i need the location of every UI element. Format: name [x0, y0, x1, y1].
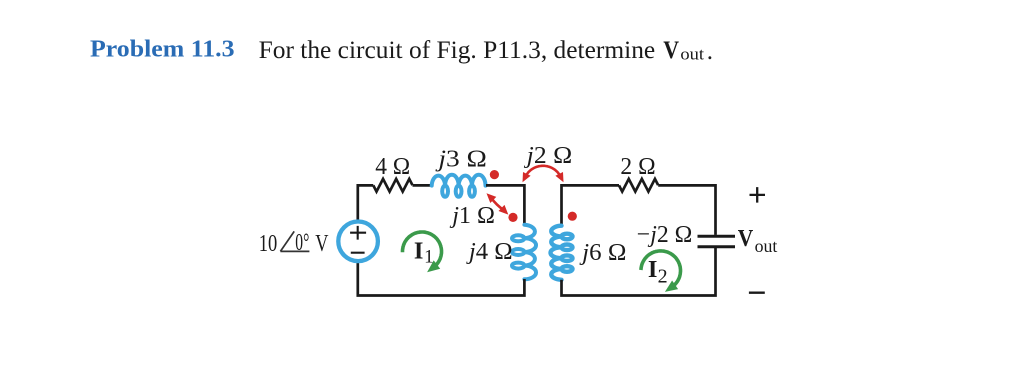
inductor j6 ohm (coil) — [551, 226, 573, 280]
svg-text:For the circuit of Fig. P11.3,: For the circuit of Fig. P11.3, determine — [259, 36, 656, 64]
svg-text:j3 Ω: j3 Ω — [435, 145, 487, 172]
inductor j3 ohm (coil) — [432, 175, 486, 197]
svg-text:2 Ω: 2 Ω — [620, 153, 655, 180]
mutual arrow j1 — [491, 198, 504, 210]
svg-text:j4 Ω: j4 Ω — [466, 238, 513, 265]
svg-text:V: V — [663, 36, 679, 64]
svg-text:1: 1 — [424, 246, 434, 267]
svg-text:j2 Ω: j2 Ω — [524, 142, 573, 169]
resistor 4 ohm — [373, 179, 412, 192]
svg-text:Problem 11.3: Problem 11.3 — [90, 37, 235, 63]
wire: j4 bottom, bottom wire, up to source minus — [358, 262, 525, 295]
wire: 4ohm to j3 coil — [413, 184, 432, 187]
mesh current I2 arrow — [641, 251, 681, 286]
svg-text:I: I — [648, 256, 658, 283]
wire: capacitor to bottom-right corner back to j6 bottom — [562, 247, 716, 296]
capacitor -j2 plates — [698, 236, 736, 247]
svg-text:0°: 0° — [295, 229, 309, 256]
svg-text:I: I — [414, 238, 424, 265]
wire: right loop, j6 top to corner to 2ohm — [562, 185, 620, 225]
inductor j4 ohm (coil) — [512, 225, 536, 280]
plus (Vout polarity) — [750, 187, 766, 203]
svg-text:j1 Ω: j1 Ω — [449, 202, 495, 229]
svg-text:2: 2 — [658, 265, 668, 287]
polarity dot j3 — [490, 170, 499, 179]
mesh current I1 arrow — [403, 232, 442, 266]
svg-text:V: V — [738, 226, 754, 252]
wire: source top to top-left corner to 4ohm resistor — [358, 185, 374, 220]
svg-text:out: out — [680, 44, 704, 63]
svg-text:4 Ω: 4 Ω — [375, 153, 410, 180]
voltage source circle — [338, 222, 378, 262]
wire: 2ohm to top-right corner down to capacitor — [658, 185, 715, 235]
minus (Vout polarity) — [749, 292, 765, 294]
svg-text:.: . — [707, 38, 713, 65]
polarity dot j6 — [568, 212, 577, 221]
plus sign in source — [350, 226, 366, 240]
svg-text:j6 Ω: j6 Ω — [579, 239, 626, 266]
resistor 2 ohm — [619, 179, 658, 192]
angle symbol — [280, 231, 309, 251]
svg-text:−j2 Ω: −j2 Ω — [637, 221, 693, 248]
svg-text:out: out — [755, 236, 778, 256]
svg-text:V: V — [315, 230, 328, 257]
minus sign in source — [351, 252, 365, 254]
mutual coupling arc j2 — [525, 166, 560, 177]
wire: j3 coil to corner, down to j4 coil — [486, 185, 524, 225]
svg-text:10: 10 — [259, 230, 278, 257]
polarity dot j4 — [508, 213, 517, 222]
